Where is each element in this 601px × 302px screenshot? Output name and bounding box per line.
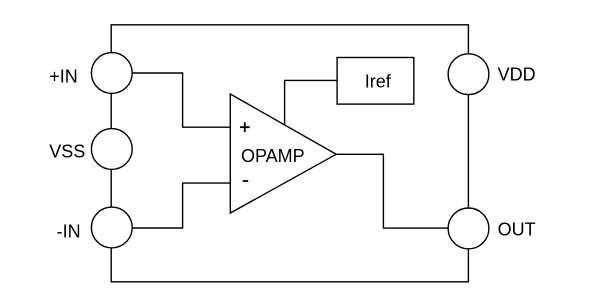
svg-text:VSS: VSS [49, 142, 85, 162]
svg-text:-IN: -IN [57, 222, 81, 242]
svg-text:VDD: VDD [498, 64, 536, 84]
svg-text:+IN: +IN [49, 66, 78, 86]
svg-text:OPAMP: OPAMP [241, 146, 305, 166]
svg-text:OUT: OUT [498, 219, 536, 239]
svg-text:Iref: Iref [365, 72, 392, 92]
